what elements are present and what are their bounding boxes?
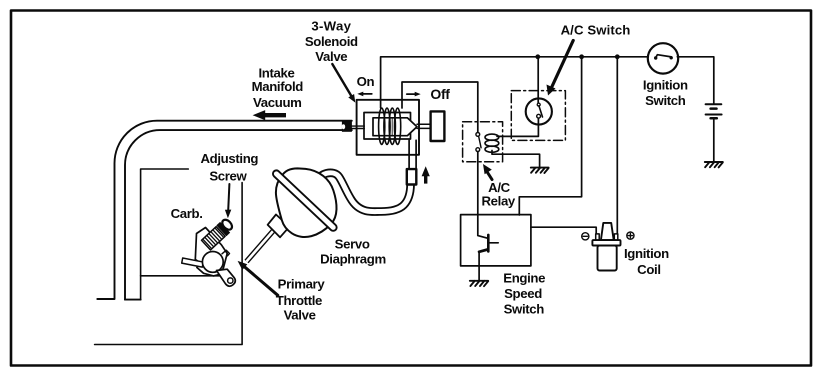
hose open end cross line <box>125 299 141 301</box>
svg-text:Valve: Valve <box>284 307 316 322</box>
svg-text:Vacuum: Vacuum <box>253 95 301 110</box>
wire engine speed switch to ignition coil negative <box>531 227 596 234</box>
A/C relay dash-dot enclosure <box>463 122 503 162</box>
wire ignition switch to battery <box>677 57 714 104</box>
vacuum hose inner wall <box>125 130 352 300</box>
A/C switch S2 circle with contacts <box>526 98 552 124</box>
wire relay coil to ground <box>492 151 540 168</box>
throttle valve hook <box>222 250 230 256</box>
carburetor throttle bore <box>202 252 223 273</box>
wire solenoid second lead to A/C relay contact <box>402 82 478 133</box>
svg-text:Off: Off <box>430 86 450 102</box>
svg-text:Adjusting: Adjusting <box>200 151 258 166</box>
svg-text:Engine: Engine <box>503 271 545 286</box>
solenoid plunger needle <box>393 118 417 136</box>
relay coil K1 <box>485 134 499 152</box>
svg-text:Throttle: Throttle <box>276 293 322 308</box>
solenoid lower tube white core <box>410 140 415 171</box>
solenoid coil winding <box>379 108 401 144</box>
svg-text:Switch: Switch <box>645 93 686 108</box>
solenoid core rectangle <box>373 118 393 136</box>
svg-text:A/C Switch: A/C Switch <box>561 23 631 38</box>
servo vacuum hose black outline <box>315 173 411 212</box>
throttle lever end hole <box>228 278 233 283</box>
label A/C Switch leader arrow <box>547 41 574 96</box>
ignition switch SW1 <box>648 43 678 73</box>
ground below engine speed switch <box>470 281 488 286</box>
Off flow arrow <box>407 92 421 97</box>
wire relay contact through engine speed switch transistor <box>478 151 488 238</box>
servo rod white core <box>247 231 274 262</box>
solenoid lower tube walls <box>409 140 416 170</box>
node junction dot ignition-coil branch <box>615 54 620 59</box>
label 3-Way leader arrow <box>332 64 355 103</box>
adjusting screw collar <box>216 222 230 236</box>
svg-text:3-Way: 3-Way <box>311 19 351 34</box>
svg-text:Relay: Relay <box>481 194 515 209</box>
engine speed switch box <box>461 215 531 266</box>
servo vacuum hose white core <box>315 173 411 212</box>
svg-text:Diaphragm: Diaphragm <box>320 251 386 266</box>
svg-text:On: On <box>357 74 375 89</box>
valve disc block <box>431 111 445 141</box>
relay contact blade <box>479 136 482 148</box>
relay contact upper <box>476 133 480 137</box>
svg-text:Servo: Servo <box>335 236 370 251</box>
flow up arrow at tube <box>422 166 430 183</box>
On flow arrow <box>357 92 372 97</box>
intake manifold vacuum bold arrow <box>253 110 286 120</box>
svg-text:Ignition: Ignition <box>624 246 669 261</box>
ground below battery <box>705 162 723 167</box>
svg-text:Valve: Valve <box>315 49 347 64</box>
wire bus to ignition coil positive terminal <box>616 57 618 234</box>
ignition coil minus symbol <box>582 233 589 240</box>
servo diaphragm flange disc <box>272 169 339 232</box>
carburetor fuel stub <box>182 258 204 267</box>
svg-text:Switch: Switch <box>504 302 545 317</box>
solenoid plunger housing <box>364 113 411 140</box>
ignition coil plus symbol <box>627 232 634 239</box>
hose end fitting black cap <box>342 121 352 131</box>
valve stem lines <box>417 124 431 128</box>
svg-text:Solenoid: Solenoid <box>305 34 358 49</box>
servo diaphragm neck <box>268 215 290 238</box>
wire main bus from solenoid to ignition switch <box>381 57 648 108</box>
node junction dot A/C switch branch <box>535 54 540 59</box>
label Primary Throttle Valve leader arrow <box>238 261 278 295</box>
thin branch line under carburetor <box>141 275 221 277</box>
label A/C Relay leader arrow <box>483 164 492 180</box>
relay contact lower <box>476 148 480 152</box>
wire battery to ground <box>713 118 715 162</box>
vacuum hose outer wall to intake manifold <box>97 121 351 299</box>
transistor Q1 <box>479 235 498 252</box>
svg-text:Screw: Screw <box>209 169 247 184</box>
carburetor throttle lever bracket <box>217 269 236 286</box>
servo diaphragm body <box>276 168 337 237</box>
node junction dot engine-speed-switch branch <box>579 54 584 59</box>
thin line vertical to bottom horizontal <box>95 183 243 345</box>
servo rod black outline <box>247 231 274 262</box>
wire A/C switch branch down <box>537 57 539 103</box>
ground below relay coil <box>531 168 549 173</box>
battery B1 <box>706 104 722 118</box>
wire emitter to ground <box>478 252 480 281</box>
thin line from hose end up with top corner <box>141 169 189 300</box>
hose end fitting white notch <box>342 124 346 129</box>
svg-text:Primary: Primary <box>278 277 326 292</box>
svg-text:Ignition: Ignition <box>643 77 688 92</box>
svg-text:Coil: Coil <box>637 262 661 277</box>
svg-text:Carb.: Carb. <box>171 206 203 221</box>
hose nipple into solenoid <box>352 126 364 128</box>
carburetor body <box>195 228 227 276</box>
A/C switch dash-dot enclosure <box>511 91 565 141</box>
adjusting screw spring <box>201 217 235 250</box>
wire A/C switch to relay coil <box>497 118 538 136</box>
tube connector sleeve <box>407 169 417 184</box>
3-way solenoid valve outer case <box>357 100 419 155</box>
adjusting screw head dome <box>220 218 233 232</box>
svg-text:Speed: Speed <box>504 286 542 301</box>
label Adjusting Screw leader arrow <box>225 184 231 218</box>
svg-text:Manifold: Manifold <box>252 79 304 94</box>
ignition coil T1 <box>592 223 620 271</box>
wire bus to engine speed switch <box>519 57 581 215</box>
